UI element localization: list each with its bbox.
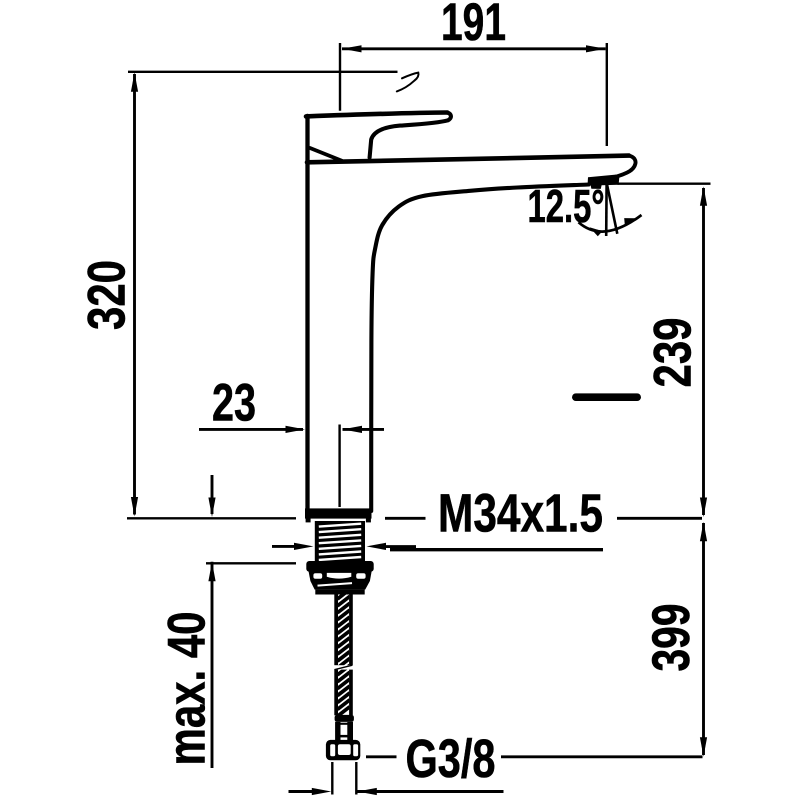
dimension 399 bbox=[702, 523, 705, 755]
node centre line / 23 extension bbox=[338, 425, 340, 508]
hose braid bbox=[337, 589, 349, 716]
svg-text:23: 23 bbox=[212, 374, 256, 433]
svg-text:M34x1.5: M34x1.5 bbox=[438, 484, 603, 544]
bottom flange bbox=[315, 590, 364, 595]
black bar marker bbox=[572, 393, 641, 401]
hose break bbox=[333, 665, 353, 669]
threaded shank M34 bbox=[315, 521, 365, 561]
hex nut G3/8 bbox=[326, 740, 360, 760]
dimension 320 bbox=[133, 74, 136, 515]
tapered base ring bbox=[310, 581, 370, 590]
svg-text:320: 320 bbox=[78, 260, 137, 330]
svg-text:12.5°: 12.5° bbox=[528, 180, 605, 232]
hose ferrule bbox=[335, 715, 354, 722]
faucet body outline bbox=[306, 113, 636, 517]
dimension 239 bbox=[618, 182, 711, 184]
locknut bbox=[306, 561, 373, 572]
M34 width arrows bbox=[272, 545, 298, 548]
svg-text:G3/8: G3/8 bbox=[406, 729, 496, 789]
label G3/8 bbox=[366, 755, 397, 758]
dimension 191 bbox=[342, 47, 606, 50]
label M34x1.5 bbox=[385, 517, 426, 520]
washer bbox=[309, 572, 372, 582]
lever movement squiggle bbox=[397, 73, 419, 92]
column base band bbox=[305, 508, 372, 518]
svg-text:399: 399 bbox=[642, 604, 701, 672]
column left edge bbox=[305, 116, 309, 516]
svg-text:191: 191 bbox=[441, 0, 506, 52]
dimension max. 40 bbox=[211, 475, 214, 514]
svg-text:239: 239 bbox=[644, 318, 703, 388]
flexible hose walls bbox=[334, 594, 338, 715]
svg-text:max. 40: max. 40 bbox=[158, 612, 217, 766]
hex nut width dimension bbox=[331, 762, 333, 795]
connector tube bbox=[335, 722, 340, 740]
